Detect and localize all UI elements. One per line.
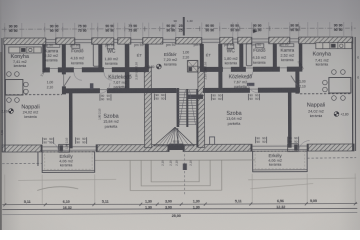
door leaf corridor-right [291, 76, 298, 86]
top dim numbers at x=210 [205, 24, 214, 32]
entry door mark [183, 163, 187, 170]
bathtub left [93, 44, 99, 66]
bathtub right [246, 44, 252, 66]
room label furdo left [70, 48, 84, 65]
swing arc wc L [104, 72, 112, 80]
bottom dim numbers row2 [63, 205, 286, 210]
staircase winder treads triangle [154, 127, 194, 146]
bottom witness lines [5, 173, 356, 204]
room label eloter left [163, 52, 177, 66]
top dim numbers at x=110 [105, 24, 114, 32]
wall szoba/nappali right [288, 91, 292, 148]
right margin tiny text [356, 56, 359, 79]
right exterior wall [352, 37, 355, 151]
kamra shelf right [281, 44, 294, 47]
faint slanted line right [250, 184, 313, 189]
entry steps [130, 160, 222, 190]
eaves dashed left [2, 162, 42, 164]
party wall left of stairs (hatched) [144, 67, 151, 148]
balcony L door marks b [76, 137, 87, 144]
top dimension chain line [2, 28, 356, 29]
wall et/eloter left [145, 44, 149, 67]
staircase straight run treads [177, 89, 196, 127]
downpipe mark left [37, 152, 39, 166]
stair R door marks [211, 93, 222, 100]
wc cistern left [107, 44, 114, 49]
chimney shaft [188, 60, 198, 72]
balcony R door marks b [288, 136, 299, 143]
top dim numbers at x=257.5 [253, 24, 262, 32]
room label kamra left [44, 48, 58, 62]
top dim centre axis tick [183, 17, 185, 36]
bottom wall jamb caps [41, 144, 354, 152]
kamra shelf left [47, 44, 60, 47]
wall konyha/kamra left [42, 44, 46, 72]
north arrow mark [253, 30, 258, 33]
bottom dim line 1 [2, 204, 357, 205]
room label nappali right [307, 102, 325, 118]
top wall window openings [46, 37, 299, 44]
wall kamra/konyha right [299, 44, 303, 72]
wall nappali/szoba left [69, 91, 73, 148]
top dim numbers at x=171 [166, 24, 175, 32]
basin furdo left [72, 44, 80, 48]
dining table and chairs left [5, 72, 28, 103]
top dim tick marks [5, 26, 352, 32]
top dim numbers at x=235 [230, 24, 239, 32]
top dim numbers at x=54.5 [50, 25, 59, 33]
wall corridor-right [295, 67, 299, 94]
top dim numbers at x=181 [179, 24, 183, 32]
bottom dim line 2 [2, 208, 357, 209]
main entrance door leaf [169, 144, 183, 150]
wall wc/et left (long) [125, 44, 130, 90]
room label szoba right [226, 111, 242, 126]
room label kamra right [280, 48, 294, 62]
level marker nappali left edge [1, 109, 13, 114]
paper highlight inside building [5, 43, 353, 145]
kitchen counter right [316, 43, 352, 49]
wall kamra/furdo + corridor-left [62, 44, 66, 94]
wall below small rooms right w/ door gaps [200, 67, 300, 72]
top witness lines [5, 22, 352, 37]
bottom dim ticks [3, 202, 356, 206]
room label furdo right [252, 48, 266, 65]
wall furdo/kamra right [273, 44, 277, 67]
swing arc furdo L [74, 72, 82, 80]
szoba L door marks [154, 93, 165, 100]
left paper edge [0, 52, 2, 230]
corridor/szoba wall left [62, 88, 177, 93]
door dim eloter [182, 50, 189, 59]
radiator szoba right [210, 137, 215, 146]
dashed konyha/nappali line left [5, 94, 62, 96]
room label nappali left [21, 104, 39, 119]
wc cistern right [227, 44, 234, 49]
eaves dashed right [307, 157, 356, 160]
top dim numbers at x=295 [290, 24, 299, 32]
top dim numbers at x=82.5 [78, 24, 87, 32]
stair left wall [177, 88, 180, 127]
balcony R door marks a [256, 136, 267, 143]
bottom exterior wall hatched segments [2, 144, 354, 152]
corridor/szoba wall right [188, 88, 300, 99]
ground line under balcony left [18, 178, 116, 181]
room label kozlekedo right [229, 74, 253, 88]
level marker nappali right [334, 112, 349, 117]
room label erkely left [59, 154, 73, 167]
kitchen counter left [9, 47, 42, 53]
centre axis dashed [183, 150, 185, 196]
dining table and chairs right [323, 70, 351, 101]
top dim numbers at x=133 [128, 24, 137, 32]
bottom dim line 3 [2, 213, 357, 215]
top dim numbers at x=338.5 [334, 24, 343, 32]
room label erkely right [268, 153, 282, 166]
swing arc balcony R [299, 141, 310, 152]
pen arc left [37, 187, 78, 191]
room label konyha left [11, 54, 29, 68]
eaves line [95, 159, 255, 162]
wall below small rooms left w/ door gaps [42, 67, 149, 72]
swing arc balcony L [48, 141, 59, 152]
lintel labels pm 90 [44, 42, 289, 47]
balcony L door marks a [43, 137, 54, 144]
room label szoba left [103, 114, 119, 129]
room label wc right [224, 48, 238, 65]
room label kozlekedo left [108, 75, 132, 89]
balcony door openings in bottom wall [42, 146, 307, 150]
balcony right [253, 144, 308, 172]
swing arc corridor R [248, 83, 258, 93]
top dim numbers at x=13.5 [9, 25, 18, 33]
bottom dim numbers row1 [24, 199, 317, 204]
level marker eloter left [146, 64, 161, 69]
room label wc left [104, 49, 118, 66]
swing arc furdo R [246, 72, 253, 79]
corridor L door marks [100, 94, 111, 101]
swing arc corridor L [100, 83, 110, 93]
party wall right of stairs (hatched) [198, 67, 205, 148]
ground line under balcony right [248, 178, 356, 180]
wall et/wc right (long) [218, 44, 222, 90]
wall furdo/wc left [98, 44, 102, 67]
dashed konyha/nappali line right [300, 93, 352, 95]
corridor R door marks [248, 93, 259, 100]
left exterior wall [2, 38, 5, 152]
centre upper dim texts [174, 19, 193, 23]
door dim konyha left [47, 80, 54, 89]
wall wc/furdo right [239, 44, 243, 67]
door leaf corridor-left [64, 76, 71, 86]
stair right wall [196, 89, 201, 147]
radiator corridor left [90, 83, 94, 89]
wall eloter/et right [200, 44, 204, 67]
radiator corridor right [247, 83, 255, 86]
basin furdo right [256, 44, 264, 48]
top exterior wall hatched segments [4, 37, 353, 45]
balcony left [42, 144, 95, 172]
room label konyha right [313, 52, 331, 67]
door dim konyha right [299, 79, 306, 88]
